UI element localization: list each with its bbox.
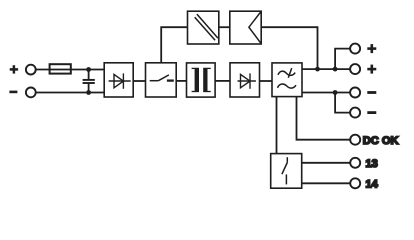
switch contact inside U2 xyxy=(150,75,174,81)
terminal circle DC OK xyxy=(350,135,360,145)
label + (input plus sign) xyxy=(10,65,18,73)
transformer T1 block xyxy=(187,63,216,97)
junction + branch xyxy=(333,67,338,72)
label - terminal 1 xyxy=(367,91,376,94)
input rectifier block U1 xyxy=(104,63,133,97)
junction bus and + wire xyxy=(315,67,320,72)
wire K1 to terminal 14 xyxy=(302,182,351,184)
label - terminal 2 xyxy=(367,111,376,114)
output terminal circle +1 xyxy=(350,44,360,54)
wire + output from filter xyxy=(302,68,350,70)
junction - branch xyxy=(333,90,338,95)
label + terminal 1 xyxy=(367,44,376,53)
contact symbol inside K1 xyxy=(282,157,287,184)
diode D1 inside U1 xyxy=(109,73,131,88)
wire U2 top to converter block xyxy=(161,27,187,63)
output diode block U5 xyxy=(230,63,260,97)
regulator block U4 xyxy=(230,11,261,44)
chevron symbol inside U4 xyxy=(249,12,261,44)
junction bottom of C1 xyxy=(86,90,91,95)
filter symbol upper tilde with slash xyxy=(278,68,295,78)
wire T1 to output diode block xyxy=(215,80,230,82)
converter block U3 xyxy=(188,11,219,44)
label - (input minus sign) xyxy=(9,91,17,94)
svg-text:13: 13 xyxy=(366,158,378,170)
double diagonal symbol inside U3 xyxy=(195,14,218,40)
wire - rail input xyxy=(36,92,104,94)
junction top of C1 xyxy=(86,67,91,72)
terminal circle 13 xyxy=(350,158,360,168)
svg-text:DC OK: DC OK xyxy=(363,135,399,147)
input terminal circle - xyxy=(26,88,36,98)
wire DC OK from filter bottom xyxy=(297,97,351,140)
wire + rail input xyxy=(36,69,104,71)
label + terminal 2 xyxy=(367,65,376,74)
input terminal circle + xyxy=(26,65,36,75)
svg-text:14: 14 xyxy=(366,178,379,190)
wire branch down to terminal -2 xyxy=(335,93,350,113)
wire U5 to filter block xyxy=(260,80,273,82)
wire - output from filter xyxy=(302,92,350,94)
output terminal circle +2 xyxy=(350,64,360,74)
wire U3 to U4 xyxy=(219,26,230,28)
wire filter to relay K1 xyxy=(276,97,278,154)
wire U2 to transformer xyxy=(176,80,186,82)
output terminal circle -2 xyxy=(350,108,360,118)
transformer T1 windings xyxy=(192,68,211,91)
wire U1 to switch block xyxy=(133,80,145,82)
filter symbol lower tilde xyxy=(278,84,297,88)
capacitor C1 xyxy=(83,70,95,93)
wire K1 to terminal 13 xyxy=(302,162,351,164)
wire branch up to terminal +1 xyxy=(335,49,350,70)
diode D2 inside U5 xyxy=(238,73,256,88)
output terminal circle -1 xyxy=(350,88,360,98)
wire U4 to output bus xyxy=(261,27,317,69)
relay contact block K1 xyxy=(271,154,302,189)
switching stage block U2 xyxy=(146,63,177,97)
output filter block U6 xyxy=(272,63,302,97)
terminal circle 14 xyxy=(350,178,360,188)
fuse F1 xyxy=(50,64,71,73)
